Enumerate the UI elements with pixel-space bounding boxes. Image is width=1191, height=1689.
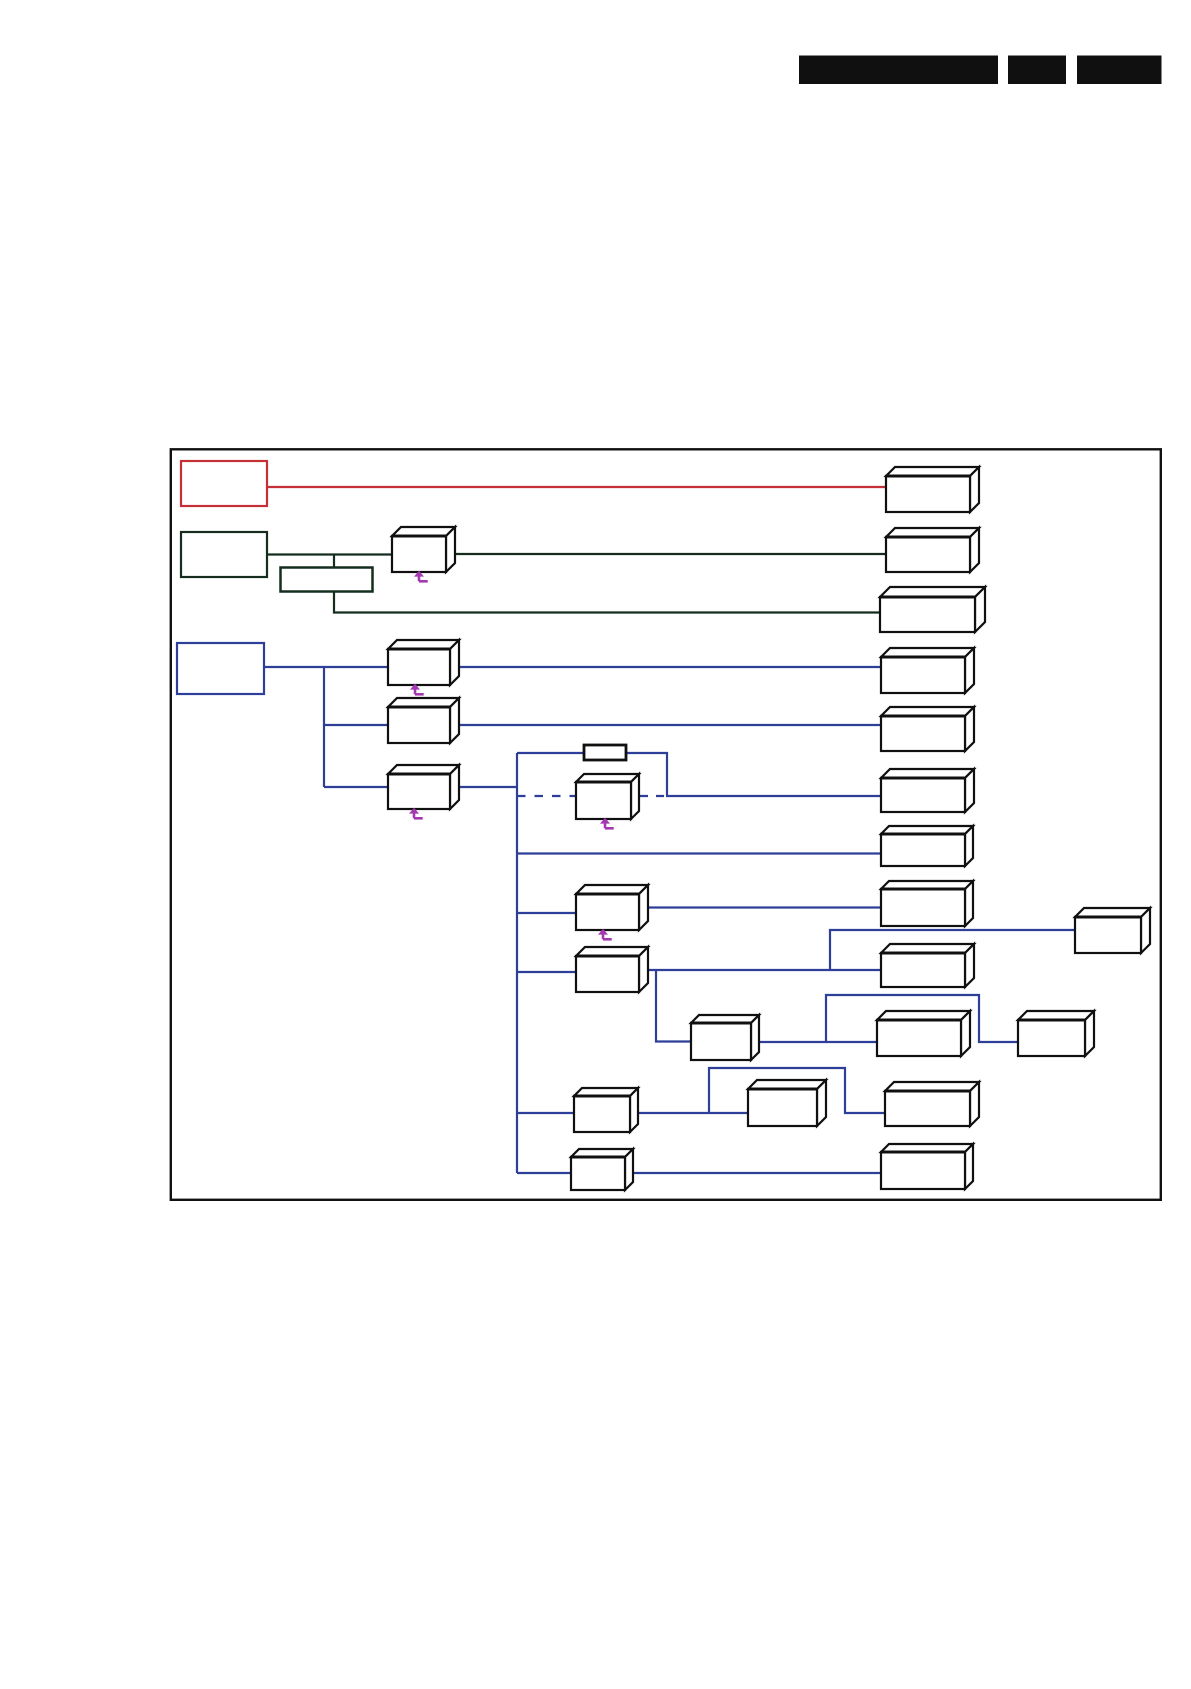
wire green lower run xyxy=(334,591,880,613)
wire green out to right xyxy=(446,553,886,555)
3d box M2 xyxy=(576,947,648,992)
3d box B2 xyxy=(388,698,459,743)
wire branch B3 xyxy=(324,786,388,788)
wire branch M4 xyxy=(517,1112,574,1114)
wire M2 out xyxy=(639,969,881,971)
header bar 3 xyxy=(1077,56,1162,85)
3d box G1 xyxy=(392,527,455,572)
black label strip xyxy=(584,745,626,760)
3d box SB xyxy=(1018,1011,1094,1056)
wire dashed right xyxy=(640,795,666,797)
arrow under K1 xyxy=(600,818,614,829)
wire branch M1 xyxy=(517,912,576,914)
wire B1 out xyxy=(450,666,881,668)
3d box B3 xyxy=(388,765,459,809)
wire branch B2 xyxy=(324,724,388,726)
3d box M4 xyxy=(574,1088,638,1132)
arrow under G1 xyxy=(414,571,428,582)
wire branch M6 xyxy=(517,1172,571,1174)
3d box B10 xyxy=(877,1011,970,1056)
wire row direct xyxy=(517,852,881,854)
wire B2 out xyxy=(450,724,881,726)
arrow under B1 xyxy=(410,684,424,695)
wire M6 out xyxy=(625,1172,881,1174)
3d box R1 xyxy=(886,467,979,512)
wire top loop left xyxy=(517,752,584,754)
3d box FR xyxy=(1075,908,1150,953)
wire green drop to label xyxy=(333,555,335,569)
3d box M1 xyxy=(576,885,648,930)
wire K1 out solid xyxy=(666,795,881,797)
arrow under M1 xyxy=(598,929,612,940)
3d box B7 xyxy=(881,826,973,866)
wire blue feed xyxy=(264,666,388,668)
3d box B9 xyxy=(881,944,974,987)
red source box xyxy=(181,461,267,506)
wire branch M2 xyxy=(517,971,576,973)
green source box xyxy=(181,532,267,577)
wire top loop right xyxy=(626,753,667,796)
3d box G2 xyxy=(886,528,979,572)
wire green feed xyxy=(267,553,392,555)
wire blue trunk 2 xyxy=(516,753,518,1173)
wire bypass over M5 xyxy=(709,1068,885,1113)
3d box B12 xyxy=(881,1144,973,1189)
3d box G3 xyxy=(880,587,985,632)
3d box M5 xyxy=(748,1080,826,1126)
3d box B11 xyxy=(885,1082,979,1126)
wire blue trunk 1 xyxy=(323,667,325,787)
wire M4 out xyxy=(630,1112,748,1114)
diagram frame xyxy=(171,449,1161,1200)
3d box B4 xyxy=(881,648,974,693)
wire red feed xyxy=(267,486,886,488)
wire drop to M3 xyxy=(656,970,691,1042)
3d box M3 xyxy=(691,1015,759,1060)
wire B3 out xyxy=(450,786,517,788)
3d box B5 xyxy=(881,707,974,751)
wire bypass up xyxy=(830,930,1075,970)
3d box B1 xyxy=(388,640,459,685)
wire bypass over B10 xyxy=(826,995,1018,1042)
blue source box xyxy=(177,643,264,694)
header bar 1 xyxy=(799,56,998,85)
green label strip xyxy=(281,568,373,592)
wire M3 out xyxy=(751,1041,877,1043)
wire dashed left xyxy=(517,795,576,797)
arrow under B3 xyxy=(409,808,423,819)
3d box K1 xyxy=(576,774,639,819)
3d box B8 xyxy=(881,881,973,926)
3d box M6 xyxy=(571,1149,633,1190)
3d box B6 xyxy=(881,769,974,812)
header bar 2 xyxy=(1008,56,1066,85)
wire M1 out xyxy=(639,906,881,908)
